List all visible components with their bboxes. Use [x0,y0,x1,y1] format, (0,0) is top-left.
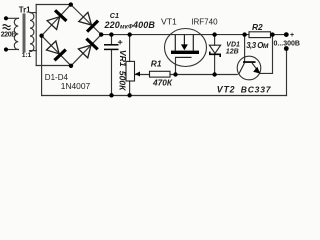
svg-text:0...300В: 0...300В [274,41,300,48]
transistor VT2 base lead [244,35,246,62]
node: VR1 bottom junction [127,93,131,97]
svg-text:R2: R2 [252,22,263,32]
wire: top wire to bridge top node [36,4,71,6]
transistor VT2 body circle [237,56,261,80]
capacitor C1 plates [104,45,119,50]
resistor R1 body [150,71,171,77]
svg-text:500К: 500К [117,71,127,91]
mosfet VT1 body circle [165,29,207,67]
svg-text:1N4007: 1N4007 [61,81,91,91]
transistor VT2 base bar [243,61,256,63]
node: zener bottom junction [212,72,216,76]
node: C1 bottom junction [109,93,113,97]
wire: AC input bottom lead [6,49,19,51]
zener diode VD1 cathode bar with wings [210,52,220,57]
svg-text:VR1: VR1 [118,50,128,67]
potentiometer VR1 body [126,61,135,81]
zener diode VD1 bottom lead [214,55,216,75]
svg-text:+: + [290,32,294,39]
mosfet VT1 drain lead [174,35,176,51]
capacitor C1 bottom lead [111,50,113,96]
transistor VT2 emitter lead with arrow [252,63,260,74]
potentiometer VR1 bottom lead [129,81,131,96]
wire: DC minus vertical from bridge left node [41,36,43,96]
potentiometer VR1 top lead [129,35,131,62]
wire: bridge arm top-right [71,5,101,35]
resistor R2 body [249,32,271,38]
wire: wiper to R1 [135,74,150,76]
mosfet VT1 substrate arrow lead [183,35,185,45]
potentiometer VR1 wiper arrow [135,72,140,77]
node: output minus terminal [284,46,289,51]
node: gate junction [173,72,177,76]
wire: R1 to gate node [170,74,237,76]
svg-text:VT1: VT1 [161,17,177,27]
diode D4 (bottom-right arm) [77,39,97,59]
node: output plus terminal [284,32,289,37]
node: bridge right [99,32,103,36]
mosfet VT1 source lead [192,35,194,51]
transformer Tr1 core [22,14,24,52]
wire: bridge arm top-left [42,5,71,36]
wire: AC input top lead [6,17,19,19]
wire: VT2 emitter to output [260,35,273,74]
wire: bridge arm bottom-right [71,35,101,66]
node: R2 right junction [270,32,274,36]
svg-text:220мкФ400В: 220мкФ400В [104,20,156,31]
svg-text:C1: C1 [110,11,119,20]
wire: secondary bottom connector [30,50,37,52]
wire: bridge arm bottom-left [42,36,71,66]
capacitor C1 top lead [111,35,113,45]
node: bridge left [39,34,43,38]
wire: bottom rail [42,95,287,97]
wire: positive top rail [101,34,249,36]
wire: rail from R2 to output plus [271,34,287,36]
svg-text:BC337: BC337 [241,85,272,95]
node: AC terminal top [4,16,8,20]
node: zener top junction [212,32,216,36]
svg-text:IRF740: IRF740 [191,18,218,27]
svg-text:VT2: VT2 [217,85,236,95]
wire: secondary top connector [30,12,36,14]
mosfet VT1 gate electrode [176,56,192,58]
svg-text:12В: 12В [226,49,239,56]
transformer Tr1 secondary winding [30,13,34,52]
node: C1 top junction [109,32,113,36]
diode D1 (top-left arm) [46,10,66,30]
transformer Tr1 primary winding [14,18,18,49]
mosfet VT1 channel bar [171,51,199,54]
wire: output minus drop [286,49,288,96]
svg-text:1:1: 1:1 [22,52,32,59]
node: bridge top [69,2,73,6]
label AC symbol [3,25,11,27]
svg-text:220В: 220В [1,31,16,38]
svg-text:470К: 470К [152,78,173,88]
node: VR1 top junction [128,32,132,36]
zener diode VD1 top lead [214,35,216,46]
node: bridge bottom [69,64,73,68]
svg-text:R1: R1 [151,59,162,69]
zener diode VD1 triangle [209,45,220,53]
node: AC terminal bottom [4,47,8,51]
diode D3 (bottom-left arm) [46,40,66,60]
transistor VT2 collector lead [239,63,245,75]
svg-text:VD1: VD1 [226,41,240,48]
mosfet VT1 gate lead [175,57,177,74]
capacitor C1 plus mark [118,40,123,44]
diode D2 (top-right arm) [78,11,98,31]
node: R2 left junction [242,32,246,36]
wire: AC2 horizontal to bridge bottom node [36,65,71,67]
wire: secondary vertical riser [35,5,37,66]
svg-text:3,3 Ом: 3,3 Ом [246,41,269,50]
svg-text:Tr1: Tr1 [19,6,31,15]
